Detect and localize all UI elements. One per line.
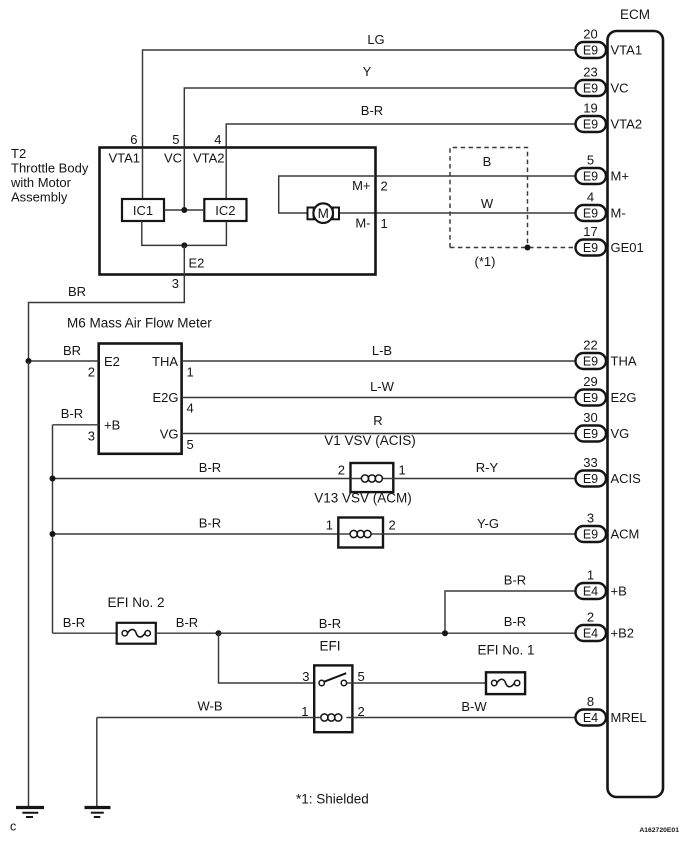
svg-text:E9: E9 bbox=[583, 528, 598, 542]
wire IC1 to IC2 bbox=[164, 209, 204, 211]
wire B-R to VTA2 bbox=[226, 124, 575, 148]
junction shield drain bbox=[525, 245, 531, 251]
svg-text:Y-G: Y-G bbox=[477, 516, 499, 531]
svg-text:E4: E4 bbox=[583, 711, 598, 725]
svg-text:M+: M+ bbox=[352, 178, 370, 193]
wire ground drop left bbox=[28, 361, 30, 806]
wire BR to E2 pin2 bbox=[29, 360, 99, 362]
svg-text:8: 8 bbox=[587, 694, 594, 709]
svg-text:L-B: L-B bbox=[372, 343, 392, 358]
svg-text:1: 1 bbox=[326, 518, 333, 533]
svg-text:E9: E9 bbox=[583, 241, 598, 255]
junction E2 node bbox=[181, 242, 187, 248]
wire junction to relay pin3 bbox=[219, 633, 315, 683]
svg-text:2: 2 bbox=[587, 610, 594, 625]
svg-text:4: 4 bbox=[214, 132, 221, 147]
svg-text:EFI No. 2: EFI No. 2 bbox=[107, 595, 164, 610]
fuse EFI No. 2 bbox=[117, 623, 156, 644]
wire M+ loop inside T2 bbox=[279, 176, 376, 213]
svg-text:VTA1: VTA1 bbox=[108, 151, 140, 166]
svg-text:17: 17 bbox=[583, 224, 597, 239]
svg-text:B-R: B-R bbox=[199, 516, 221, 531]
wire B-R to V13 VSV bbox=[53, 533, 339, 535]
svg-text:E2G: E2G bbox=[152, 390, 178, 405]
svg-text:1: 1 bbox=[399, 463, 406, 478]
svg-text:E9: E9 bbox=[583, 207, 598, 221]
svg-text:+B2: +B2 bbox=[611, 626, 635, 641]
svg-text:3: 3 bbox=[172, 276, 179, 291]
wire Y to VC bbox=[184, 88, 575, 148]
svg-text:VC: VC bbox=[164, 151, 182, 166]
svg-text:20: 20 bbox=[583, 27, 597, 42]
junction B-R ACM bbox=[50, 531, 56, 537]
junction B-R relay node bbox=[216, 630, 222, 636]
svg-text:c: c bbox=[10, 820, 16, 834]
svg-text:E9: E9 bbox=[583, 82, 598, 96]
svg-text:B-R: B-R bbox=[319, 616, 341, 631]
wire Y-G to ACM bbox=[383, 533, 576, 535]
svg-text:VTA1: VTA1 bbox=[611, 43, 643, 58]
svg-text:2: 2 bbox=[381, 179, 388, 194]
svg-text:MREL: MREL bbox=[611, 710, 647, 725]
wire W to M- bbox=[339, 212, 576, 214]
wire relay pin5 to EFI No.1 fuse bbox=[352, 682, 486, 684]
svg-text:ECM: ECM bbox=[620, 7, 650, 22]
connector E9 pin M- bbox=[576, 205, 607, 221]
svg-text:B-R: B-R bbox=[361, 103, 383, 118]
fuse EFI No. 1 bbox=[486, 672, 525, 694]
svg-text:2: 2 bbox=[389, 518, 396, 533]
svg-text:1: 1 bbox=[301, 704, 308, 719]
svg-text:E9: E9 bbox=[583, 118, 598, 132]
svg-text:19: 19 bbox=[583, 101, 597, 116]
junction B-R +B node bbox=[442, 630, 448, 636]
connector E4 pin +B2 bbox=[576, 625, 607, 641]
svg-text:E2G: E2G bbox=[611, 390, 637, 405]
svg-text:THA: THA bbox=[152, 354, 178, 369]
svg-text:Y: Y bbox=[363, 64, 372, 79]
svg-text:+B: +B bbox=[611, 584, 627, 599]
svg-text:2: 2 bbox=[358, 704, 365, 719]
svg-text:5: 5 bbox=[358, 669, 365, 684]
svg-text:LG: LG bbox=[367, 32, 384, 47]
svg-text:E9: E9 bbox=[583, 355, 598, 369]
svg-text:30: 30 bbox=[583, 410, 597, 425]
connector E9 pin VG bbox=[576, 426, 607, 442]
svg-text:1: 1 bbox=[381, 216, 388, 231]
svg-text:VC: VC bbox=[611, 81, 629, 96]
wire W-B to relay pin1 bbox=[97, 717, 314, 719]
svg-text:3: 3 bbox=[302, 669, 309, 684]
svg-text:M+: M+ bbox=[611, 169, 629, 184]
svg-text:*1: Shielded: *1: Shielded bbox=[296, 792, 369, 807]
svg-text:4: 4 bbox=[187, 401, 194, 416]
svg-text:A162720E01: A162720E01 bbox=[639, 827, 679, 834]
connector E9 pin THA bbox=[576, 353, 607, 369]
svg-text:(*1): (*1) bbox=[475, 254, 496, 269]
wire B to M+ bbox=[376, 175, 576, 177]
wire R to VG bbox=[182, 433, 576, 435]
svg-text:V13 VSV (ACM): V13 VSV (ACM) bbox=[314, 491, 412, 506]
connector E4 pin +B bbox=[576, 583, 607, 599]
svg-text:+B: +B bbox=[104, 418, 120, 433]
svg-text:VG: VG bbox=[160, 427, 179, 442]
svg-text:IC1: IC1 bbox=[133, 203, 153, 218]
svg-text:M-: M- bbox=[355, 216, 370, 231]
svg-text:5: 5 bbox=[187, 437, 194, 452]
wire pin4 to IC2 bbox=[225, 148, 227, 200]
svg-text:R-Y: R-Y bbox=[476, 460, 499, 475]
wire B-R to +B pin3 bbox=[53, 424, 99, 426]
svg-text:E2: E2 bbox=[104, 354, 120, 369]
svg-text:1: 1 bbox=[187, 365, 194, 380]
svg-text:E2: E2 bbox=[189, 256, 205, 271]
svg-text:2: 2 bbox=[338, 463, 345, 478]
ground symbol relay bbox=[85, 808, 111, 818]
solenoid valve V1 bbox=[351, 463, 394, 492]
wire L-W to E2G bbox=[182, 397, 576, 399]
wire fuse to junction bbox=[156, 632, 219, 634]
connector E9 pin M+ bbox=[576, 168, 607, 184]
svg-text:B-R: B-R bbox=[176, 615, 198, 630]
svg-text:23: 23 bbox=[583, 65, 597, 80]
svg-text:M-: M- bbox=[611, 206, 626, 221]
wire R-Y to ACIS bbox=[393, 478, 575, 480]
connector E4 pin MREL bbox=[576, 710, 607, 726]
connector E9 pin E2G bbox=[576, 390, 607, 406]
svg-text:E9: E9 bbox=[583, 391, 598, 405]
wire ground drop relay bbox=[96, 718, 98, 807]
wire pin6 to IC1 bbox=[142, 148, 144, 200]
connector E9 pin GE01 bbox=[576, 240, 607, 256]
svg-text:5: 5 bbox=[172, 132, 179, 147]
svg-text:EFI No. 1: EFI No. 1 bbox=[477, 643, 534, 658]
svg-text:E9: E9 bbox=[583, 170, 598, 184]
wire B-W to MREL bbox=[352, 717, 575, 719]
svg-text:EFI: EFI bbox=[319, 639, 340, 654]
wire B-R trunk to fuse bbox=[53, 632, 117, 634]
svg-text:1: 1 bbox=[587, 568, 594, 583]
ground symbol left bbox=[16, 808, 44, 818]
svg-text:E9: E9 bbox=[583, 427, 598, 441]
connector E9 pin VC bbox=[576, 80, 607, 96]
svg-text:BR: BR bbox=[63, 343, 81, 358]
junction BR node bbox=[26, 358, 32, 364]
wire B-R trunk left bbox=[52, 425, 54, 633]
relay switch contacts bbox=[319, 673, 352, 686]
svg-text:B-R: B-R bbox=[63, 615, 85, 630]
svg-text:E9: E9 bbox=[583, 44, 598, 58]
svg-text:B-W: B-W bbox=[461, 699, 487, 714]
op-amp IC1 bbox=[122, 199, 164, 221]
svg-text:L-W: L-W bbox=[370, 379, 395, 394]
op-amp IC2 bbox=[204, 199, 246, 221]
svg-text:W-B: W-B bbox=[197, 699, 222, 714]
svg-text:3: 3 bbox=[587, 511, 594, 526]
T2 throttle body box bbox=[100, 148, 376, 275]
svg-text:VTA2: VTA2 bbox=[193, 151, 225, 166]
svg-text:6: 6 bbox=[130, 132, 137, 147]
wire E2 to pin3 bbox=[29, 245, 185, 361]
motor M armature bbox=[308, 203, 340, 223]
junction VC node bbox=[181, 207, 187, 213]
shield dashed box *1 bbox=[450, 148, 528, 248]
svg-text:2: 2 bbox=[88, 365, 95, 380]
svg-text:B-R: B-R bbox=[504, 573, 526, 588]
svg-text:E9: E9 bbox=[583, 472, 598, 486]
ECM body bbox=[608, 31, 664, 797]
svg-text:ACIS: ACIS bbox=[611, 471, 642, 486]
svg-text:THA: THA bbox=[611, 354, 637, 369]
svg-text:R: R bbox=[373, 413, 382, 428]
svg-text:B-R: B-R bbox=[504, 614, 526, 629]
svg-text:5: 5 bbox=[587, 153, 594, 168]
wire LG to VTA1 bbox=[143, 50, 576, 148]
wire pin5 to IC1-IC2 net bbox=[183, 148, 185, 211]
svg-text:VTA2: VTA2 bbox=[611, 117, 643, 132]
wire B-R to +B bbox=[445, 591, 576, 633]
svg-text:E4: E4 bbox=[583, 585, 598, 599]
svg-text:22: 22 bbox=[583, 338, 597, 353]
solenoid valve V13 bbox=[338, 518, 383, 548]
svg-text:33: 33 bbox=[583, 455, 597, 470]
svg-text:VG: VG bbox=[611, 426, 630, 441]
svg-text:3: 3 bbox=[88, 429, 95, 444]
svg-text:29: 29 bbox=[583, 374, 597, 389]
svg-text:B-R: B-R bbox=[61, 406, 83, 421]
junction B-R ACIS bbox=[50, 476, 56, 482]
svg-text:BR: BR bbox=[68, 284, 86, 299]
connector E9 pin VTA2 bbox=[576, 116, 607, 132]
svg-text:W: W bbox=[481, 196, 494, 211]
M6 mass air flow meter box bbox=[99, 344, 182, 454]
connector E9 pin VTA1 bbox=[576, 42, 607, 58]
wire B-R to +B2 bbox=[219, 632, 576, 634]
svg-text:B-R: B-R bbox=[199, 460, 221, 475]
wire IC1 bottom to E2 net bbox=[142, 221, 227, 245]
svg-text:IC2: IC2 bbox=[215, 203, 235, 218]
svg-text:M: M bbox=[318, 206, 329, 221]
svg-text:V1 VSV (ACIS): V1 VSV (ACIS) bbox=[324, 433, 416, 448]
relay EFI box bbox=[314, 665, 352, 732]
svg-text:E4: E4 bbox=[583, 627, 598, 641]
dashed shield wire to GE01 bbox=[450, 247, 576, 249]
connector E9 pin ACM bbox=[576, 526, 607, 542]
svg-text:GE01: GE01 bbox=[611, 240, 644, 255]
svg-text:4: 4 bbox=[587, 190, 594, 205]
connector E9 pin ACIS bbox=[576, 471, 607, 487]
wire B-R to V1 VSV bbox=[53, 478, 351, 480]
svg-text:T2Throttle Bodywith MotorAssem: T2Throttle Bodywith MotorAssembly bbox=[10, 146, 89, 205]
wire L-B to THA bbox=[182, 360, 576, 362]
svg-text:B: B bbox=[483, 154, 492, 169]
relay coil bbox=[314, 714, 352, 721]
svg-text:M6 Mass Air Flow Meter: M6 Mass Air Flow Meter bbox=[67, 316, 212, 331]
svg-text:ACM: ACM bbox=[611, 527, 640, 542]
